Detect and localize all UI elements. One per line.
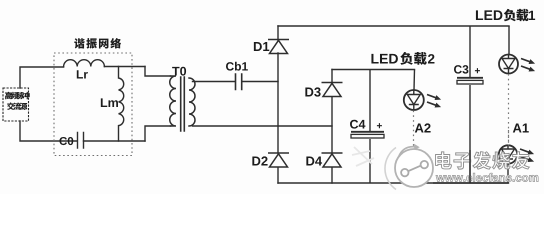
transformer T0 secondary winding <box>189 78 195 126</box>
label Cb1 <box>226 62 234 70</box>
LED light arrows <box>519 147 535 157</box>
diode D1 <box>268 39 289 41</box>
watermark ghost marks <box>352 147 374 166</box>
bottom rail over watermark <box>433 182 509 184</box>
D1/D2 branch vertical wire <box>277 26 279 183</box>
wire: Lr to jog <box>104 66 145 68</box>
watermark outer faint arc <box>385 148 396 190</box>
label A1 <box>513 124 522 133</box>
label Lr <box>77 70 83 78</box>
plus of C4 <box>377 123 382 128</box>
wire: C3 branch over watermark <box>469 150 471 183</box>
inductor Lr <box>64 60 105 67</box>
LED light arrows <box>426 92 442 102</box>
label D3 <box>305 88 313 97</box>
wire: secondary top to Cb1 <box>193 81 235 83</box>
label LED load 1 <box>476 10 483 20</box>
diode D2 <box>268 152 289 154</box>
transformer T0 primary winding <box>170 76 176 126</box>
mid rail to LED load 2 <box>332 69 415 71</box>
wire: C0 to jog <box>84 140 146 142</box>
top rail <box>278 25 509 27</box>
text 交流源 <box>7 102 14 110</box>
wire: A1 string bottom to rail <box>507 164 509 183</box>
label C3 <box>454 65 462 73</box>
plus of C3 <box>475 68 480 73</box>
label C4 <box>350 120 358 129</box>
diode D3 <box>322 82 343 84</box>
wire: jog to transformer primary top <box>145 67 171 77</box>
wire: secondary bottom to D3/D4 node <box>193 125 333 127</box>
transformer core <box>181 77 185 131</box>
bottom rail <box>278 182 509 184</box>
watermark url www.elecfans.com <box>436 175 445 181</box>
capacitor C4 <box>351 131 384 133</box>
label D1 <box>254 42 262 51</box>
wire: jog to transformer primary bottom <box>145 126 171 141</box>
text 高频脉冲 <box>5 92 12 99</box>
wire: LED load 1 branch <box>508 26 510 55</box>
label C0 <box>59 137 67 145</box>
wire: Cb1 to D1/D2 node <box>242 81 278 83</box>
label 谐振网络 <box>74 38 84 48</box>
wire: C4 branch <box>369 70 371 184</box>
capacitor C3 <box>457 77 483 79</box>
capacitor Cb1 <box>236 74 242 90</box>
label T0 <box>172 67 179 76</box>
label A2 <box>415 124 424 133</box>
label LED load 2 <box>371 54 378 64</box>
watermark logo circle <box>395 149 433 187</box>
watermark text 电子发烧友 <box>436 152 452 169</box>
dotted series continuation of A2 string <box>413 111 415 184</box>
resonant network dashed box <box>54 53 132 156</box>
label Lm <box>101 98 107 107</box>
diode D4 <box>322 152 343 154</box>
watermark logo node left <box>401 169 408 176</box>
capacitor C0 <box>78 133 84 149</box>
LED light arrows <box>520 56 536 66</box>
label D4 <box>306 157 314 166</box>
wire: source bottom to C0 <box>20 121 77 141</box>
LED A2 string top <box>404 90 424 110</box>
wire: C3 branch <box>469 26 471 183</box>
wire: source top to Lr <box>20 67 64 88</box>
watermark logo node right <box>421 161 428 168</box>
dotted A1 series over watermark <box>508 130 510 146</box>
watermark logo link line <box>408 165 421 171</box>
inductor Lm <box>119 67 124 142</box>
label D2 <box>252 157 260 166</box>
LED A1 string top <box>499 55 518 74</box>
AC source box <box>3 88 29 121</box>
dotted series continuation of A1 string <box>508 74 510 146</box>
wire: LED load 2 branch <box>413 70 416 91</box>
LED A1 string bottom <box>499 145 517 163</box>
D3/D4 branch vertical wire <box>331 70 333 184</box>
watermark logo swoosh <box>399 147 416 157</box>
